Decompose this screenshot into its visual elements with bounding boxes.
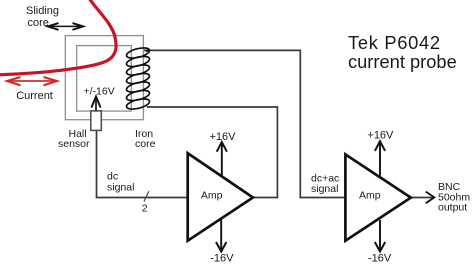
svg-text:-16V: -16V bbox=[210, 252, 234, 264]
svg-text:sensor: sensor bbox=[58, 138, 90, 150]
svg-text:Amp: Amp bbox=[359, 190, 381, 202]
svg-text:+16V: +16V bbox=[210, 131, 237, 143]
svg-text:core: core bbox=[135, 138, 156, 150]
svg-text:Current: Current bbox=[16, 90, 53, 102]
svg-text:2: 2 bbox=[142, 203, 148, 215]
svg-text:signal: signal bbox=[311, 183, 338, 195]
svg-text:+/-16V: +/-16V bbox=[84, 86, 115, 98]
svg-text:+16V: +16V bbox=[367, 129, 394, 141]
svg-text:signal: signal bbox=[107, 182, 134, 194]
svg-text:Sliding: Sliding bbox=[26, 5, 59, 17]
svg-text:current probe: current probe bbox=[348, 51, 457, 72]
svg-text:output: output bbox=[438, 202, 467, 214]
svg-text:-16V: -16V bbox=[368, 252, 392, 264]
svg-text:Amp: Amp bbox=[201, 190, 223, 202]
svg-text:core: core bbox=[28, 17, 49, 29]
